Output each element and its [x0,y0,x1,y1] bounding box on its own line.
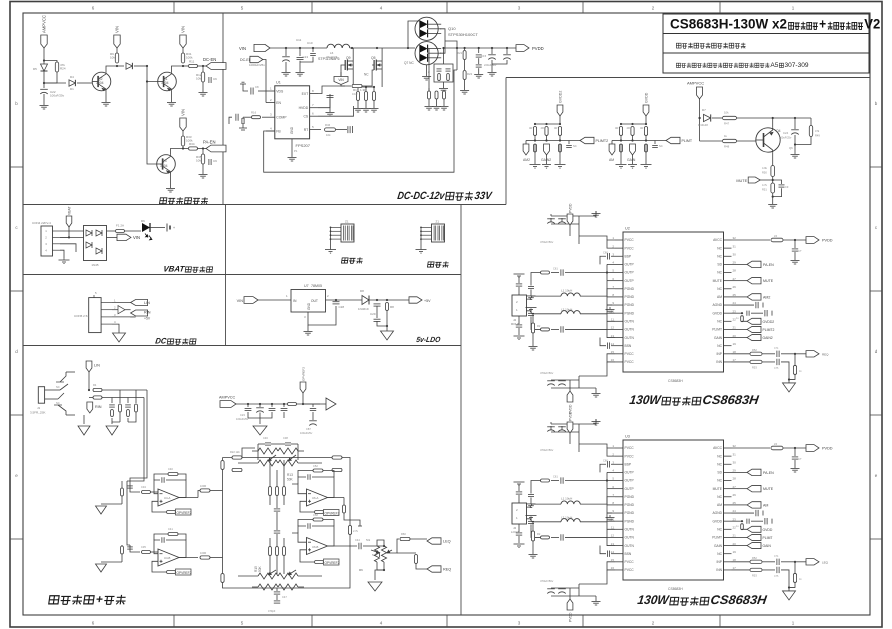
ground [772,202,774,204]
svg-text:OUTP: OUTP [625,487,635,491]
svg-text:MUTE: MUTE [763,487,774,491]
svg-text:U4-A: U4-A [164,496,171,500]
resistor R49 [810,118,812,126]
arrow PA-EN [732,471,748,473]
svg-text:C74: C74 [774,347,779,350]
svg-text:470uF/50v: 470uF/50v [540,371,554,375]
output wire 1 [179,497,198,499]
svg-text:C38: C38 [283,436,288,440]
arrow GVDD [742,320,747,322]
svg-text:D5: D5 [33,67,37,71]
svg-text:OUTN: OUTN [625,544,635,548]
svg-text:C11: C11 [296,38,302,42]
PVCC top bus [607,448,615,456]
main rail [270,47,327,49]
output wire 2 [179,557,198,559]
svg-text:30: 30 [733,252,737,256]
diode D7 1N4148 [700,117,702,119]
fuse F1 [116,230,125,233]
svg-text:4R: 4R [627,126,630,130]
svg-text:PLIMT2: PLIMT2 [596,139,609,143]
svg-text:CON5 2.54: CON5 2.54 [74,314,89,318]
svg-text:R6: R6 [359,568,363,572]
arrow PA-EN [732,263,748,265]
BSP cap [611,463,615,465]
svg-text:3904: 3904 [160,164,168,168]
svg-text:30: 30 [733,460,737,464]
svg-text:L2 10uH: L2 10uH [561,307,572,311]
svg-text:GAIN: GAIN [627,158,636,162]
headphone jack J1 [38,387,44,404]
svg-text:PVCC: PVCC [625,446,635,450]
svg-text:VBAT: VBAT [68,206,72,215]
LIN flag [86,361,92,372]
op-amp U6B [307,538,328,555]
svg-text:C9: C9 [785,185,789,189]
svg-text:L1 10uH: L1 10uH [561,497,572,501]
mosfet Q5 [373,60,375,70]
svg-text:26: 26 [733,285,737,289]
svg-text:NC: NC [717,344,722,348]
VIN flag small [340,72,342,76]
svg-text:CS8683H: CS8683H [710,593,769,607]
OUTN bus [607,321,615,337]
diode array D3 [84,226,107,261]
pot ground [375,570,384,580]
INP network [732,353,751,355]
wires from connector [60,230,84,232]
ground pin3 [308,306,336,325]
arrow MUTE [732,488,748,490]
svg-text:U2: U2 [625,227,630,231]
svg-text:C15: C15 [481,54,487,58]
pins left [615,239,623,241]
transistor Q1 [158,72,177,91]
svg-text:GVDD2: GVDD2 [763,320,775,324]
svg-text:C61: C61 [553,475,558,479]
svg-text:+5V: +5V [144,317,151,321]
svg-text:FPS207: FPS207 [296,143,311,148]
connector CON5 [89,298,101,333]
svg-text:PLIMT: PLIMT [763,536,773,540]
svg-text:PVDD: PVDD [822,239,833,243]
ground bottom [595,596,597,599]
resistor R11 [183,65,188,67]
volume pot dual [381,546,386,562]
svg-text:NC: NC [717,454,722,458]
AM flag [526,140,535,142]
svg-text:16: 16 [611,358,615,362]
svg-text:GAIN: GAIN [763,544,772,548]
svg-text:C44: C44 [355,538,360,542]
resistor R12 + cap C6 [202,66,204,72]
svg-text:INP: INP [717,560,723,564]
wires + arrows LIN RIN [112,302,131,304]
svg-text:AGND: AGND [712,511,722,515]
svg-text:L5: L5 [774,234,778,238]
arrow AM [732,504,748,506]
svg-text:C23: C23 [240,413,245,417]
svg-text:AGND: AGND [712,303,722,307]
svg-text:C60: C60 [603,250,608,254]
svg-text:PVDD: PVDD [822,447,833,451]
jack contacts [60,372,66,382]
svg-text:AM: AM [609,158,614,162]
inductor L1 [580,489,607,505]
svg-text:PGND: PGND [625,303,635,307]
svg-text:GAIN: GAIN [714,336,723,340]
svg-text:5v-LDO: 5v-LDO [416,335,441,344]
wire diode bus [408,21,420,48]
svg-text:4R: 4R [640,126,643,130]
svg-text:STPS30H100CT: STPS30H100CT [448,32,478,37]
OUTN RC [565,536,607,538]
svg-text:BSN: BSN [625,552,632,556]
opvref flag top [300,382,306,393]
arrow AM [732,296,748,298]
svg-text:EXT: EXT [302,92,309,96]
caps below box [274,591,280,593]
svg-text:R34: R34 [189,142,195,146]
svg-text:NC: NC [717,462,722,466]
svg-text:C61: C61 [553,267,558,271]
COMP network [262,116,266,118]
svg-text:AVCC: AVCC [713,238,723,242]
svg-text:IN: IN [293,299,297,303]
svg-text:R2: R2 [537,532,541,536]
svg-text:LEQ: LEQ [443,540,451,544]
svg-text:OPVREF2: OPVREF2 [325,561,340,565]
svg-text:C28: C28 [339,305,345,309]
feedback 4 [298,526,306,533]
gate bus [341,65,351,86]
earth ground [381,331,394,340]
pot R15 bottom [258,573,278,579]
svg-text:GVDD2: GVDD2 [559,91,563,103]
svg-text:10k: 10k [724,111,729,115]
svg-text:23: 23 [733,309,737,313]
power flag PVDD bottom [567,391,573,402]
resistors [619,127,622,136]
svg-text:AMPVCC: AMPVCC [219,396,236,400]
gate resistor R17 [352,84,362,87]
svg-text:CS8683H: CS8683H [668,587,683,591]
svg-text:LOUT: LOUT [511,530,519,534]
svg-text:C60: C60 [603,458,608,462]
svg-text:32: 32 [733,236,737,240]
svg-text:R13: R13 [287,473,293,477]
ground triangle [253,426,267,435]
svg-text:PLIMT: PLIMT [712,536,722,540]
power flag PVDD [567,422,573,433]
svg-text:78M05: 78M05 [311,284,322,288]
power flag AMPVCC [41,35,47,48]
svg-text:SD: SD [717,471,722,475]
output shunt caps [530,491,532,494]
earth ground [113,333,126,342]
PVCC top bus [607,240,615,248]
svg-text:RT: RT [304,128,308,132]
svg-text:BSN: BSN [625,344,632,348]
INN network [732,569,751,571]
INP network [732,561,751,563]
resistor R32 [182,131,184,136]
svg-text:R24: R24 [60,67,66,71]
resistor R9 [115,53,118,63]
arrow MUTE [760,179,773,181]
svg-text:PGND: PGND [625,295,635,299]
svg-text:PGND: PGND [625,511,635,515]
svg-text:R2: R2 [537,324,541,328]
svg-text:R51: R51 [762,188,767,192]
svg-text:PVDD: PVDD [569,411,573,421]
power flag VIN [180,118,186,131]
PGND bus to ground [607,497,615,521]
svg-text:3904: 3904 [96,81,104,85]
source wires to sense resistors [353,69,374,87]
svg-text:AM2: AM2 [763,295,770,299]
svg-text:NC: NC [717,254,722,258]
svg-text:26: 26 [733,493,737,497]
svg-text:R21: R21 [457,51,463,55]
svg-text:VIN: VIN [239,46,246,51]
AVCC wire + fuse [732,447,771,449]
svg-text:EN: EN [276,101,281,105]
lower resistors [534,144,537,152]
svg-text:GVDD: GVDD [712,311,722,315]
transistor Q2 [92,72,111,91]
svg-text:R50: R50 [762,171,767,175]
svg-text:29: 29 [733,469,737,473]
svg-text:15: 15 [611,350,615,354]
section divider lines [23,204,506,206]
svg-text:R17: R17 [353,88,359,92]
snubber network [443,48,445,64]
transistor Q3 [157,155,176,174]
svg-text:STP110N8F6: STP110N8F6 [318,57,340,61]
OUTP RC to gnd [565,272,607,274]
wire from op3 to pot area [344,513,360,526]
svg-text:R22: R22 [467,72,473,76]
svg-text:4.9k: 4.9k [762,166,768,170]
input series resistor R2 [532,313,534,323]
svg-text:OUTN: OUTN [625,328,635,332]
wire to Q1 base [147,66,158,82]
buffer triangle [326,398,336,410]
svg-text:NC: NC [56,385,60,389]
svg-text:CS: CS [303,115,308,119]
svg-text:VIN: VIN [133,235,140,240]
grounds [620,152,622,164]
svg-text:PVCC: PVCC [625,560,635,564]
svg-text:PGND: PGND [625,503,635,507]
svg-text:Z1: Z1 [345,220,349,224]
ground [60,250,64,258]
diode D1 [44,82,66,84]
svg-text:100uF/25v: 100uF/25v [300,431,313,435]
middle vertical parts [269,487,272,496]
svg-text:MUTE: MUTE [736,179,747,183]
svg-text:C6: C6 [213,77,217,81]
svg-text:VIN: VIN [237,299,244,303]
svg-text:R11: R11 [189,60,195,64]
svg-text:U1: U1 [276,81,281,85]
svg-text:100uF/25v: 100uF/25v [50,94,65,98]
signal wires down [130,390,147,484]
svg-text:OUTN: OUTN [625,320,635,324]
resistor R51 [771,183,775,193]
svg-text:GND: GND [290,126,294,134]
wire emitter Q1 [171,91,173,100]
AM flag [612,140,621,142]
svg-text:R60: R60 [401,532,406,536]
corner resistors [221,461,224,470]
svg-text:Q6: Q6 [789,146,793,150]
svg-text:OPVREF2: OPVREF2 [302,367,306,381]
svg-text:REQ: REQ [822,352,829,356]
earth ground [783,591,796,600]
svg-text:Q9: Q9 [346,56,351,60]
sense resistors R18 R19 R20 [357,87,359,91]
svg-text:OUTP: OUTP [625,479,635,483]
cap C13 [299,48,301,56]
svg-text:OUTN: OUTN [625,336,635,340]
svg-text:R53: R53 [752,365,757,369]
svg-text:29: 29 [733,261,737,265]
svg-text:NC: NC [364,73,369,77]
svg-text:INN: INN [716,568,722,572]
svg-text:10k: 10k [196,159,201,163]
svg-text:AM: AM [717,503,722,507]
svg-text:NC: NC [717,495,722,499]
ground top [595,211,597,216]
svg-text:SD: SD [717,263,722,267]
svg-text:C58: C58 [313,513,318,517]
arrow PLIMT [732,328,748,330]
svg-text:CON4 22FV-4: CON4 22FV-4 [32,221,51,225]
inductor L2 [580,314,607,322]
U1 controller FPS207 [275,86,310,139]
svg-text:C?: C? [798,249,802,253]
svg-text:AM2: AM2 [523,158,530,162]
arrow VIN [117,234,131,240]
zener D5 [43,61,45,65]
svg-text:PGND: PGND [625,287,635,291]
regulator U7 78M05 [291,290,326,313]
svg-text:OUT: OUT [311,299,318,303]
IC U3 CS8683H [623,440,724,580]
svg-text:MUTE: MUTE [763,279,774,283]
svg-text:L5: L5 [774,442,778,446]
svg-text:REQ: REQ [443,568,451,572]
PVCC bottom bus [607,354,615,362]
svg-text:25: 25 [733,501,737,505]
arrow GAIN [732,337,748,339]
svg-text:R15: R15 [254,566,258,572]
svg-text:50K: 50K [258,565,262,572]
zigzag R13 [258,448,278,454]
svg-text:LIN: LIN [144,301,150,305]
CS wire [318,106,354,116]
svg-text:VIN: VIN [115,26,120,33]
svg-text:A5: A5 [770,62,778,69]
svg-text:PGND: PGND [625,495,635,499]
svg-text:33V: 33V [474,190,494,202]
svg-text:HVDD: HVDD [299,106,309,110]
IC U2 CS8683H [623,232,724,372]
svg-text:+: + [819,17,826,32]
INP shunt resistor [794,562,796,574]
arrow PVDD right [806,445,819,452]
PGND bus to ground [607,289,615,313]
LED D6 [142,223,150,232]
svg-text:P1: P1 [294,149,298,153]
svg-text:Q4: Q4 [776,129,781,133]
tone network outer box wire [223,458,351,589]
svg-text:PA-EN: PA-EN [763,471,774,475]
svg-text:U6-B: U6-B [312,545,319,549]
svg-text:2.7k: 2.7k [353,529,359,533]
pins right [724,447,732,449]
svg-text:1N4619: 1N4619 [358,307,369,311]
svg-text:R53: R53 [752,573,757,577]
capacitor C22 [43,83,45,88]
GVDD caps [732,312,743,314]
svg-text:24: 24 [733,301,737,305]
earth grounds [83,415,85,424]
ground [170,186,172,188]
earth ground opamp1 [101,503,122,505]
arrow PLIMT [732,536,748,538]
svg-text:OUTP: OUTP [625,263,635,267]
svg-text:L2 10uH: L2 10uH [561,515,572,519]
svg-text:1N4148: 1N4148 [698,123,708,127]
svg-text:NC: NC [717,552,722,556]
wire emitter Q2 to ground [105,91,107,100]
AGND cap [732,512,755,514]
output electrolytics [491,48,493,54]
input termination network [111,398,113,404]
inductor L6 [327,44,350,48]
FB loop wire [264,70,457,172]
svg-text:RIN: RIN [95,405,102,409]
wire gate Q5 [372,64,374,66]
svg-text:AVCC: AVCC [713,446,723,450]
power flag GVDD2 [557,105,563,116]
out wire + cap [326,299,363,301]
svg-text:R22 12k: R22 12k [230,450,240,454]
svg-text:R49: R49 [815,134,820,138]
svg-text:NC: NC [717,246,722,250]
svg-text:PVCC: PVCC [625,454,635,458]
svg-text:VIN: VIN [338,78,344,82]
svg-text:AM: AM [763,503,768,507]
decoupling caps bottom [547,380,555,382]
svg-text:GVDD: GVDD [763,528,773,532]
divider resistors near CS [428,48,430,91]
output RC chain [464,48,466,50]
svg-text:GAIN2: GAIN2 [763,336,773,340]
feedback loop 1 [154,480,160,494]
svg-text:R4: R4 [93,383,97,387]
svg-text:R52: R52 [752,348,757,352]
wire [258,299,291,301]
power flag VIN [180,35,186,48]
svg-text:NC: NC [717,479,722,483]
svg-text:BSP: BSP [625,462,632,466]
svg-text:+5V: +5V [424,299,431,303]
opvref flag 1 [152,501,166,512]
